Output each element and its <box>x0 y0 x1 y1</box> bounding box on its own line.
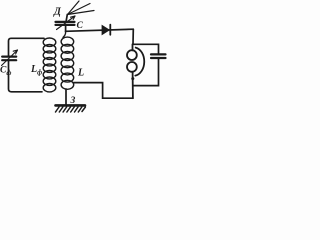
wire C to node <box>65 25 67 31</box>
svg-text:Cф: Cф <box>0 66 11 78</box>
wire antenna to C <box>66 15 67 21</box>
wire capacitor bottom lead <box>133 59 159 86</box>
diode <box>102 25 110 35</box>
junction dot <box>131 77 134 80</box>
svg-text:L: L <box>77 68 84 79</box>
wire bottom return <box>74 83 133 99</box>
left loop top wire <box>9 38 45 55</box>
wire node to diode to right corner <box>66 29 134 31</box>
wire coil to ground <box>65 89 67 104</box>
svg-text:C: C <box>77 21 84 31</box>
blocking capacitor <box>151 54 166 58</box>
ground (earth) symbol <box>56 105 86 112</box>
arrow of variable capacitor C <box>57 16 76 30</box>
capacitor C (variable) <box>56 22 75 25</box>
antenna A symbol <box>68 1 95 15</box>
svg-text:Д: Д <box>53 7 62 18</box>
headphones (telephones) <box>127 44 144 98</box>
left loop left+bottom wire <box>9 61 43 92</box>
coil L <box>61 31 74 89</box>
wire right corner down <box>132 29 134 44</box>
capacitor C_f (variable) <box>2 57 16 61</box>
arrow of variable capacitor C_f <box>2 50 18 66</box>
coil L_f <box>43 38 56 92</box>
wire branch to blocking capacitor <box>133 44 159 53</box>
svg-text:Lф: Lф <box>30 64 42 77</box>
